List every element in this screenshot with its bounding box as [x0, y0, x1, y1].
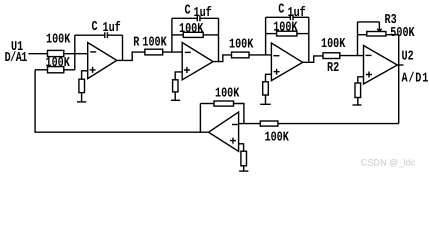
op-amp A2 [182, 43, 213, 80]
ground (A4) [353, 104, 362, 106]
wire A1 output to R [117, 52, 145, 60]
resistor Rf5 100K (A5 feedback) [214, 101, 234, 106]
ground (A2) [171, 99, 180, 101]
ground (A5) [239, 170, 248, 172]
svg-text:C: C [185, 3, 191, 18]
svg-text:100K: 100K [46, 56, 71, 71]
wire R2 to op-amp A4 inverting input [340, 55, 364, 57]
wire R5 to U2 net [278, 123, 399, 125]
pin minus A5 [232, 124, 238, 126]
pin plus A1 [90, 67, 96, 73]
node junction vertical (A4 inverting node) [357, 22, 359, 56]
op-amp A5 [209, 112, 239, 151]
resistor Rf2 100K (A2 feedback) [183, 32, 203, 37]
svg-text:100K: 100K [321, 37, 346, 52]
wire C1 to A1 output [108, 35, 123, 60]
svg-text:C: C [278, 3, 284, 18]
svg-text:100K: 100K [215, 87, 240, 102]
op-amp A3 [271, 43, 302, 81]
pin minus A3 [273, 55, 279, 57]
wire A5 output to Rf5 [200, 103, 214, 105]
wire A2 output to R23 [213, 55, 231, 62]
svg-text:100K: 100K [273, 21, 298, 36]
wire R3 to A4 output vertical [386, 34, 399, 36]
node junction vertical (A1 inverting node) [74, 35, 76, 70]
op-amp A1 [88, 43, 117, 79]
wire A4 plus input to ground resistor [358, 77, 364, 83]
svg-text:A/D1: A/D1 [402, 72, 429, 87]
wire A4 node to R3 wiper [358, 21, 380, 23]
wire A2 node to capacitor C2 [172, 17, 197, 19]
wire A3 node to capacitor C3 [266, 16, 290, 18]
pin plus A4 [366, 72, 372, 78]
wire Rg2 to ground [174, 92, 176, 100]
wire A5 feedback loop left vertical [199, 104, 201, 133]
wire A2 feedback right vertical [218, 18, 220, 61]
wire input from D/A1 to R1a [28, 53, 47, 55]
wire R1a to op-amp A1 inverting input [64, 53, 88, 55]
wire C3 to A3 output vertical [294, 16, 309, 18]
pin plus A2 [184, 67, 190, 73]
potentiometer R3 500K (A4 feedback) [367, 32, 386, 37]
resistor R23 100K (A2 out to A3 in) [232, 52, 250, 58]
wire C2 to A2 output vertical [200, 17, 218, 19]
resistor Rg5 (A5 plus to ground) [241, 151, 247, 166]
svg-text:R: R [133, 36, 140, 51]
ground (A1) [77, 101, 86, 103]
op-amp A4 [364, 46, 398, 85]
svg-text:C: C [92, 20, 98, 35]
wire A1 plus input to ground resistor [82, 71, 88, 79]
wire Rg1 to ground [81, 93, 83, 102]
wire A4 node to R3 [358, 34, 367, 36]
svg-text:100K: 100K [142, 36, 167, 51]
capacitor C2 1uf [197, 15, 200, 21]
pin minus A1 [90, 51, 96, 53]
resistor R1b 100K (feedback from A5) [48, 67, 64, 73]
svg-text:R2: R2 [327, 61, 339, 76]
ground (A3) [260, 103, 271, 105]
resistor R5 100K (U2 to A5 inverting input) [260, 121, 278, 126]
wire Rg5 to ground [243, 166, 245, 171]
resistor R 100K (A1 out to A2 in) [145, 49, 163, 55]
svg-text:100K: 100K [46, 33, 71, 48]
wire Rf5 to A5 inverting input [234, 104, 244, 124]
wire A5 plus input to ground resistor [239, 144, 244, 151]
svg-text:1uf: 1uf [288, 6, 306, 21]
wire A5 inverting input to R5 [239, 123, 261, 125]
wire R23 to op-amp A3 inverting input [249, 54, 271, 56]
pin plus A5 [230, 138, 236, 144]
wire Rf3 to A3 output vertical [297, 33, 309, 35]
wire Rf2 to A2 output vertical [203, 34, 218, 36]
svg-text:100K: 100K [229, 38, 254, 53]
pin minus A4 [366, 54, 372, 56]
capacitor C3 1uf [290, 14, 293, 20]
capacitor C1 1uf [105, 32, 108, 38]
wire A3 output to R2 [303, 56, 323, 62]
wire A3 feedback right vertical [308, 17, 310, 62]
node junction vertical (A3 inverting node) [265, 17, 267, 55]
svg-text:1uf: 1uf [103, 21, 121, 36]
wire A5 output back to R1b (bottom + left) [35, 70, 208, 132]
svg-text:U2: U2 [402, 50, 414, 65]
wire A3 node to Rf3 [266, 33, 277, 35]
svg-text:500K: 500K [390, 26, 415, 41]
resistor Rg1 (A1 plus to ground) [79, 79, 85, 92]
resistor Rg3 (A3 plus to ground) [263, 82, 269, 95]
wire R to op-amp A2 inverting input [163, 51, 183, 53]
pin minus A2 [185, 51, 191, 53]
wire A2 plus input to ground resistor [175, 72, 182, 80]
resistor Rf3 100K (A3 feedback) [277, 31, 297, 36]
resistor R1a 100K (input) [48, 50, 64, 56]
svg-text:100K: 100K [179, 22, 204, 37]
resistor R2 100K (A3 out to A4 in) [323, 53, 340, 59]
svg-text:CSDN @_ldc: CSDN @_ldc [361, 157, 416, 167]
wiper arrow of R3 [377, 22, 381, 32]
wire A4 output vertical down to bottom net [398, 35, 400, 124]
svg-text:100K: 100K [265, 130, 290, 145]
resistor Rg2 (A2 plus to ground) [173, 80, 178, 92]
wire R1b to inverting node [64, 69, 75, 71]
node junction vertical (A2 inverting node) [171, 18, 173, 52]
wire Rg4 to ground [357, 98, 359, 106]
wire A4 output stub [397, 64, 403, 66]
wire inverting node to capacitor C1 [75, 34, 105, 36]
wire Rg3 to ground [265, 95, 267, 104]
pin plus A3 [274, 69, 280, 75]
svg-text:D/A1: D/A1 [5, 51, 28, 66]
wire feedback-return to R1b [35, 69, 47, 71]
wire A3 plus input to ground resistor [266, 74, 272, 82]
wire A2 node to Rf2 [172, 34, 183, 36]
resistor Rg4 (A4 plus to ground) [355, 83, 361, 98]
